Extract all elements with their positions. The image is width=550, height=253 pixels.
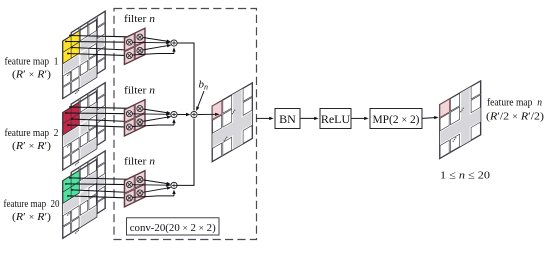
MP box xyxy=(370,109,422,129)
arrow grid to BN xyxy=(256,117,271,119)
feature map group 1 front sheet xyxy=(63,19,97,99)
svg-text:feature map 20: feature map 20 xyxy=(4,199,60,210)
filter sheet group 2 xyxy=(124,99,145,136)
adder node group 1 xyxy=(171,40,177,46)
wires filter 1 to adder xyxy=(143,38,169,42)
wires feature map 1 to filter xyxy=(69,35,71,37)
wires filter 2 to adder xyxy=(143,109,169,113)
wires feature map 3 to filter xyxy=(69,177,71,179)
svg-text:(R′ × R′): (R′ × R′) xyxy=(12,141,52,152)
arrow BN to ReLU xyxy=(301,117,317,119)
BN box xyxy=(275,109,300,129)
filter sheet group 1 xyxy=(124,28,145,65)
filter sheet group 3 xyxy=(124,170,145,207)
sum node xyxy=(191,111,197,117)
feature map group 2 back sheet xyxy=(71,82,105,162)
wires feature map 2 to filter xyxy=(69,106,71,108)
wire adder3 up to sum node xyxy=(176,119,194,186)
multiply nodes of filter 2 xyxy=(137,106,143,112)
arrow sum node into grid xyxy=(198,113,218,115)
svg-text:MP(2 × 2): MP(2 × 2) xyxy=(373,112,420,126)
svg-text:feature map 2: feature map 2 xyxy=(5,128,59,139)
ReLU box xyxy=(320,109,351,129)
summed map grid xyxy=(212,83,253,163)
feature map group 2 front sheet xyxy=(63,91,97,171)
dashed conv block boundary xyxy=(114,9,257,240)
arrow ReLU to MP xyxy=(352,117,367,119)
svg-text:filter n: filter n xyxy=(124,13,156,25)
svg-text:feature map n: feature map n xyxy=(487,98,542,109)
svg-text:filter n: filter n xyxy=(124,85,156,97)
adder node group 2 xyxy=(171,111,177,117)
multiply nodes of filter 3 xyxy=(137,177,143,183)
multiply nodes of filter 1 xyxy=(137,34,143,40)
svg-text:filter n: filter n xyxy=(124,155,156,167)
svg-text:1 ≤ n ≤ 20: 1 ≤ n ≤ 20 xyxy=(440,170,491,182)
bias arrow xyxy=(197,91,204,109)
feature map group 1 back sheet xyxy=(71,11,105,91)
svg-text:BN: BN xyxy=(279,112,296,126)
conv-20 label box xyxy=(127,218,220,235)
svg-text:(R′ × R′): (R′ × R′) xyxy=(12,212,52,223)
arrow adder2 to sum node xyxy=(177,114,188,116)
wires filter 3 to adder xyxy=(143,180,169,184)
wire adder1 down to sum node xyxy=(177,43,194,111)
svg-text:(R′ × R′): (R′ × R′) xyxy=(12,70,52,81)
adder node group 3 xyxy=(171,182,177,188)
output feature map grid xyxy=(440,81,481,159)
feature map group 3 back sheet xyxy=(71,151,105,231)
svg-text:(R′/2 × R′/2): (R′/2 × R′/2) xyxy=(486,112,545,123)
svg-text:feature map 1: feature map 1 xyxy=(5,57,59,68)
svg-text:bn: bn xyxy=(199,79,209,92)
arrow MP to output grid xyxy=(423,117,437,120)
svg-text:ReLU: ReLU xyxy=(321,112,351,126)
svg-text:conv-20(20 × 2 × 2): conv-20(20 × 2 × 2) xyxy=(130,222,216,234)
feature map group 3 front sheet xyxy=(63,159,97,239)
